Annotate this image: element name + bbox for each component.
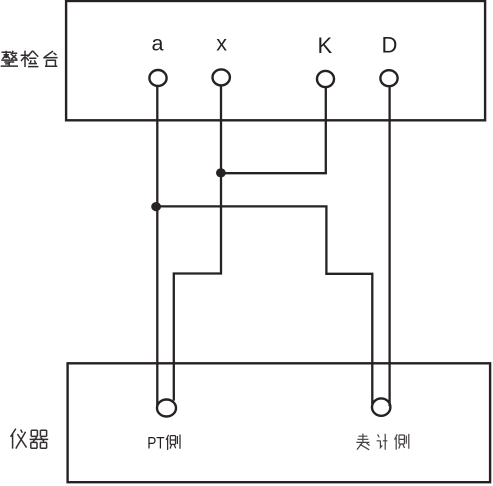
检 bbox=[21, 51, 39, 67]
instrument box 仪器 bbox=[68, 363, 491, 482]
台 bbox=[43, 51, 57, 66]
wire D to meter side bbox=[388, 86, 390, 406]
整 bbox=[1, 51, 18, 66]
label 整检台 bbox=[1, 51, 58, 67]
仪 bbox=[11, 429, 27, 449]
terminal x circle bbox=[213, 69, 230, 85]
svg-text:D: D bbox=[381, 33, 397, 58]
terminal K circle bbox=[317, 71, 334, 87]
terminal a circle bbox=[149, 70, 166, 86]
svg-text:PT: PT bbox=[147, 434, 164, 453]
junction dot on a wire bbox=[151, 202, 161, 211]
label 表计侧 bbox=[356, 434, 408, 450]
PT-side terminal circle bbox=[157, 400, 176, 417]
meter-side terminal circle bbox=[372, 398, 390, 415]
侧 (PT side) bbox=[166, 435, 180, 451]
侧 (meter side) bbox=[395, 434, 409, 450]
表 bbox=[356, 434, 369, 450]
terminal D circle bbox=[380, 70, 397, 86]
wire a-junction to meter side bbox=[157, 206, 372, 404]
label 仪器 bbox=[11, 429, 49, 449]
svg-text:a: a bbox=[152, 32, 164, 56]
wire x down with jog to PT side bbox=[174, 85, 221, 400]
svg-text:K: K bbox=[318, 33, 333, 58]
wire a to PT side bbox=[156, 86, 158, 407]
器 bbox=[30, 430, 49, 448]
svg-text:x: x bbox=[216, 32, 227, 56]
junction dot on x wire bbox=[216, 168, 226, 177]
wire K down then left to junction on x wire bbox=[221, 87, 326, 173]
计 bbox=[377, 434, 388, 450]
test-bench box 整检台 bbox=[66, 1, 485, 120]
